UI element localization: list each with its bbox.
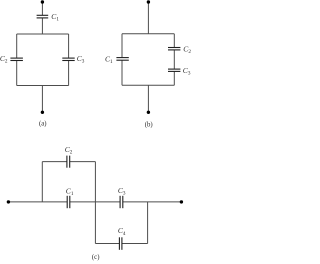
svg-text:(b): (b) <box>145 122 153 129</box>
svg-text:(a): (a) <box>39 121 47 128</box>
svg-text:(c): (c) <box>92 254 100 261</box>
